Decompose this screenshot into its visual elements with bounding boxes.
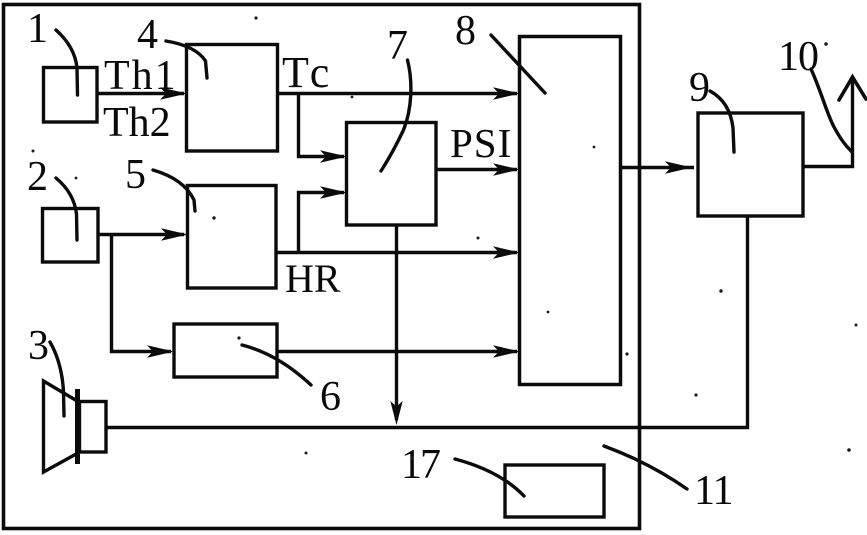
leader for label 7	[381, 60, 411, 171]
block 17	[505, 465, 604, 517]
wire block9 output to up arrow	[803, 80, 853, 167]
svg-text:Tc: Tc	[282, 48, 333, 97]
leader for label 17	[455, 459, 524, 496]
open up arrowhead 10	[839, 77, 866, 100]
wire branch Tc to block7 input1	[299, 94, 345, 157]
svg-text:Th2: Th2	[103, 100, 171, 146]
speaker driver box	[80, 402, 107, 453]
arrowhead down into bus from block7	[390, 401, 402, 425]
block 8	[520, 37, 621, 385]
speaker bar	[75, 389, 80, 464]
svg-text:11: 11	[694, 468, 732, 514]
arrowhead block6 line into block8	[493, 345, 520, 357]
svg-text:PSI: PSI	[450, 120, 512, 166]
wire block7 bottom down to bus	[395, 224, 398, 420]
leader for label 6	[242, 345, 311, 385]
wire branch block2 to block6	[112, 235, 172, 352]
enclosure box 11	[4, 5, 640, 529]
block 1 (sensor)	[44, 68, 98, 123]
wire block6 to block8	[277, 350, 517, 353]
svg-text:4: 4	[137, 12, 158, 58]
leader for label 4	[166, 41, 207, 78]
arrowhead into block6	[147, 345, 174, 357]
arrowhead into block5	[161, 228, 188, 240]
arrowhead into block9	[665, 161, 692, 173]
block 9	[698, 113, 803, 216]
leader for label 8	[491, 35, 545, 93]
svg-text:7: 7	[387, 23, 408, 69]
wire branch HR to block7 input2	[299, 193, 345, 253]
leader for label 10	[811, 69, 852, 152]
wire PSI: block7 to block8	[436, 168, 517, 171]
wire Tc: block4 to block8	[277, 92, 517, 95]
svg-text:2: 2	[27, 154, 48, 200]
scan specks	[32, 16, 858, 459]
arrowhead into block7 input1	[320, 150, 347, 162]
wire Th1/Th2: block1 to block4	[97, 92, 184, 95]
block 2 (sensor)	[43, 209, 99, 263]
leader for label 1	[56, 30, 78, 95]
block 4	[187, 45, 278, 152]
svg-text:6: 6	[320, 374, 341, 420]
svg-text:10: 10	[778, 34, 818, 80]
wire block8 to block9	[620, 166, 694, 169]
leader for label 2	[56, 178, 77, 240]
svg-text:HR: HR	[285, 256, 341, 301]
leader for label 9	[710, 91, 734, 152]
block 7	[347, 123, 437, 226]
arrowhead PSI into block8	[493, 163, 520, 175]
arrowhead HR into block8	[493, 246, 520, 258]
svg-text:17: 17	[401, 442, 440, 488]
speaker horn	[44, 381, 79, 472]
leader for label 3	[50, 342, 64, 416]
svg-text:3: 3	[28, 323, 49, 369]
arrowhead into block4	[160, 87, 187, 99]
svg-text:Th1: Th1	[104, 53, 178, 99]
svg-text:1: 1	[27, 6, 48, 52]
svg-text:5: 5	[125, 152, 146, 198]
leader for label 11	[604, 446, 687, 489]
block 6	[174, 324, 277, 377]
arrowhead Tc into block8	[493, 87, 520, 99]
wire HR: block5 to block8	[276, 251, 517, 254]
leader for label 5	[153, 170, 195, 211]
wire block2 to block5	[98, 233, 184, 236]
loudspeaker 3 symbol	[44, 381, 107, 472]
block 5	[188, 186, 277, 289]
svg-text:9: 9	[689, 65, 710, 111]
arrowhead into block7 input2	[320, 186, 347, 198]
arrowheads (filled)	[147, 87, 692, 425]
svg-text:8: 8	[455, 8, 476, 54]
wire block9 bottom to bus junction	[106, 216, 748, 428]
